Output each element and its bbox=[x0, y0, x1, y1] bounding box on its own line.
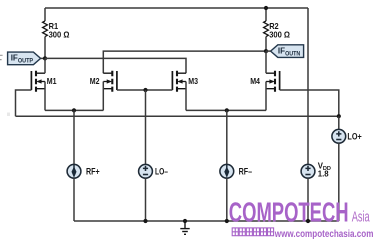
node LO+ junction bbox=[337, 114, 341, 118]
wire top supply rail bbox=[45, 7, 308, 9]
wire M1-M2 tail bbox=[45, 109, 103, 111]
node LO- rail junction bbox=[143, 219, 147, 223]
svg-text:Asia: Asia bbox=[352, 208, 370, 225]
edge artifact top-left bbox=[0, 55, 3, 59]
svg-text:IF: IF bbox=[11, 52, 18, 62]
svg-text:M2: M2 bbox=[90, 77, 100, 86]
transistor M3 bbox=[172, 71, 186, 111]
wire RF+ vertical bbox=[73, 110, 75, 164]
wire node to flag tip bbox=[266, 50, 271, 52]
svg-text:M3: M3 bbox=[188, 77, 198, 86]
svg-text:OUTN: OUTN bbox=[285, 51, 300, 58]
wire LO+ to source bbox=[338, 116, 340, 129]
node IF_OUTN junction bbox=[264, 49, 268, 53]
resistor R1 bbox=[43, 21, 48, 37]
svg-text:LO+: LO+ bbox=[347, 132, 361, 142]
source RF- current bbox=[220, 164, 234, 178]
wire LO- bottom bbox=[145, 178, 147, 221]
svg-text:300 Ω: 300 Ω bbox=[49, 30, 70, 39]
wire R2 bottom lead bbox=[265, 37, 267, 52]
svg-text:LO–: LO– bbox=[155, 167, 168, 177]
wire R1 bottom lead bbox=[44, 37, 46, 59]
wire RF- bottom bbox=[226, 178, 228, 221]
edge artifact mid-left bbox=[7, 113, 10, 117]
wire M2-M3 gate tie bbox=[117, 89, 172, 91]
logo CJK tagline bbox=[232, 228, 273, 236]
wire flag tip to node bbox=[41, 57, 45, 59]
svg-text:RF+: RF+ bbox=[86, 167, 100, 177]
svg-text:COMPOTECH: COMPOTECH bbox=[229, 196, 349, 227]
transistor M2 bbox=[103, 71, 117, 111]
svg-text:OUTP: OUTP bbox=[18, 58, 33, 65]
wire VDD branch right vertical bbox=[307, 8, 309, 164]
source LO- voltage bbox=[139, 164, 153, 178]
svg-text:M1: M1 bbox=[47, 77, 57, 86]
resistor R2 bbox=[264, 21, 269, 37]
wire M3-M4 tail bbox=[186, 109, 266, 111]
wire M2 drain to IF_OUTN bbox=[103, 51, 266, 73]
node LO- gate tap bbox=[143, 88, 147, 92]
ground bbox=[180, 221, 189, 234]
wire LO- vertical bbox=[145, 90, 147, 164]
node ground rail junction bbox=[183, 219, 187, 223]
wire RF- vertical bbox=[226, 110, 228, 164]
wire M4 gate route bbox=[280, 90, 339, 116]
svg-text:M4: M4 bbox=[250, 77, 260, 86]
transistor M1 bbox=[31, 58, 45, 110]
wire RF+ bottom bbox=[73, 178, 75, 221]
wire bottom ground rail bbox=[74, 220, 339, 222]
source VDD 1.8 supply bbox=[301, 164, 315, 178]
transistor M4 bbox=[266, 51, 280, 110]
svg-text:1.8: 1.8 bbox=[318, 169, 330, 178]
svg-text:IF: IF bbox=[278, 45, 285, 55]
source LO+ bbox=[332, 129, 346, 143]
wire LO+ distribution line bbox=[16, 115, 339, 117]
svg-text:300 Ω: 300 Ω bbox=[269, 30, 290, 39]
wire LO+ bottom bbox=[338, 143, 340, 221]
wire IF_OUTP to M3 drain bbox=[45, 58, 186, 73]
wire M1 gate route to LO+ line bbox=[16, 90, 32, 116]
node RF- rail junction bbox=[225, 219, 229, 223]
node R2 top junction bbox=[264, 6, 268, 10]
node RF+ tail junction bbox=[72, 108, 76, 112]
wire R1 top lead bbox=[44, 8, 46, 21]
node VDD rail junction bbox=[306, 219, 310, 223]
svg-text:RF–: RF– bbox=[239, 167, 253, 177]
wire R2 top lead bbox=[265, 8, 267, 21]
svg-text:www.compotechasia.com: www.compotechasia.com bbox=[274, 229, 373, 240]
node IF_OUTP junction bbox=[43, 56, 47, 60]
wire VDD bottom bbox=[307, 178, 309, 221]
IF_OUTN output flag bbox=[271, 45, 304, 58]
IF_OUTP output flag bbox=[8, 52, 41, 65]
source RF+ current bbox=[67, 164, 81, 178]
node RF- tail junction bbox=[225, 108, 229, 112]
